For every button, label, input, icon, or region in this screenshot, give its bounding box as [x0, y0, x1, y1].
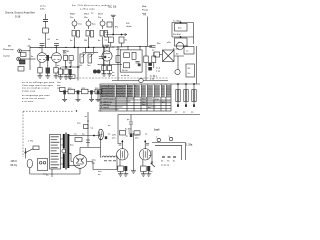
plate note texts — [28, 39, 59, 41]
component E1 — [69, 75, 75, 79]
cathode resistor R11 — [38, 62, 42, 76]
wire feed vertical — [144, 15, 148, 47]
tube labels col 2 — [84, 14, 90, 19]
terminal strip — [162, 156, 176, 158]
tiny label — [91, 13, 94, 15]
cathode resistor R16 — [102, 61, 106, 74]
tone pot VR2 — [87, 53, 94, 67]
label — [92, 160, 97, 165]
wire tap mid — [68, 153, 73, 161]
svg-text:6aa6: 6aa6 — [154, 129, 160, 132]
voltage box — [186, 64, 195, 77]
input label crystal — [3, 55, 10, 58]
triode V2 — [52, 48, 62, 63]
switch S1 — [25, 148, 33, 153]
svg-text:pa: pa — [127, 119, 130, 121]
svg-text:a aa aaaa: a aa aaaa — [22, 101, 34, 103]
svg-text:Caaa aaga aaaaf aaa agaa: Caaa aaga aaaaf aaa agaa — [22, 85, 54, 87]
wire — [86, 112, 90, 147]
svg-text:aa: aa — [191, 112, 194, 114]
B+ filter bus — [60, 91, 100, 93]
svg-text:aaa: aaa — [149, 171, 153, 173]
triode V1 — [37, 48, 47, 63]
tube labels col 1 — [70, 14, 76, 19]
meter circle M1 — [139, 78, 143, 82]
bridge rectifier BR2 — [160, 50, 185, 62]
label below box — [121, 75, 130, 77]
svg-text:Omnia Sound Amplifier: Omnia Sound Amplifier — [5, 12, 35, 15]
label aaPa — [116, 49, 122, 51]
svg-text:aa aaagaaaga gaa aaaa: aa aaagaaaga gaa aaaa — [22, 95, 50, 97]
label — [98, 171, 102, 176]
svg-text:Ca: Ca — [105, 40, 109, 42]
box left edge — [117, 115, 119, 145]
svg-text:4a: 4a — [70, 40, 73, 42]
dropper resistor R29 — [175, 84, 180, 114]
side label — [108, 125, 111, 136]
resistor R2 — [70, 31, 80, 49]
svg-text:For 29th Anniversary model: For 29th Anniversary model — [72, 4, 109, 7]
wire — [25, 153, 27, 159]
svg-text:aa: aa — [145, 134, 148, 136]
long rule / box top — [118, 114, 200, 116]
resistor R20 — [132, 52, 136, 59]
bypass capacitor C7 — [46, 61, 50, 76]
svg-text:6SC7: 6SC7 — [84, 14, 90, 16]
ground — [123, 174, 128, 176]
label — [112, 72, 115, 77]
antenna symbol — [111, 15, 116, 34]
B+ bus wire — [30, 46, 152, 48]
svg-text:2a: 2a — [188, 73, 191, 75]
ground mid — [131, 166, 136, 173]
svg-text:Pre: Pre — [98, 16, 102, 19]
svg-text:6SJ7: 6SJ7 — [98, 14, 104, 16]
capacitor can C3 — [172, 22, 194, 31]
resistor R33 — [134, 131, 140, 135]
lamp L1 — [175, 69, 180, 74]
input label mic — [3, 46, 14, 51]
input jack J1 — [18, 49, 30, 53]
selenium box U2 — [184, 47, 194, 55]
cap marks — [119, 144, 150, 146]
dropper resistor R30 — [183, 84, 188, 114]
long wire with meter — [112, 78, 168, 82]
svg-text:1a: 1a — [126, 136, 129, 138]
label — [125, 129, 132, 131]
svg-text:.02: .02 — [47, 39, 51, 41]
svg-text:Ra: Ra — [28, 39, 32, 41]
svg-text:a: a — [156, 137, 158, 139]
resistor R13 — [58, 67, 62, 77]
filter resistor R26 — [68, 88, 75, 94]
svg-text:S-16: S-16 — [15, 16, 21, 19]
svg-text:4aa: 4aa — [92, 24, 96, 26]
svg-text:1Ca: 1Ca — [78, 24, 83, 26]
svg-text:a 17a: a 17a — [28, 141, 34, 143]
wire right vertical — [196, 46, 198, 84]
capacitor blobs C20 — [93, 70, 101, 74]
table cell gaps — [115, 85, 166, 97]
wire — [93, 162, 117, 170]
transformer connect wires — [61, 139, 64, 164]
B+ wire from bridge — [80, 147, 101, 149]
svg-text:1Pa: 1Pa — [115, 27, 120, 29]
resistor R15 — [69, 56, 74, 65]
svg-text:choke: choke — [126, 26, 132, 28]
electrolytic C13 — [76, 90, 81, 101]
output labels — [99, 134, 148, 140]
ground — [38, 76, 43, 78]
rectifier oval V6 — [98, 129, 103, 140]
capacitor C17 — [129, 131, 133, 137]
label +B — [27, 46, 30, 48]
svg-text:aa: aa — [152, 50, 155, 52]
resistor R32 — [120, 131, 126, 136]
ground — [64, 77, 69, 79]
switch S2 — [151, 150, 156, 167]
title text block — [5, 12, 35, 19]
wire — [171, 23, 173, 38]
wire — [66, 47, 78, 80]
svg-text:Ra 4a: Ra 4a — [122, 70, 128, 72]
svg-text:7 aaaag a: 7 aaaag a — [101, 104, 112, 106]
capacitor C5b — [54, 44, 59, 48]
svg-text:aa 4a aa: aa 4a aa — [121, 75, 130, 77]
cathode cap C18 — [124, 166, 127, 174]
svg-text:aa va aa aaPaaga gaa aaaa: aa va aa aaPaaga gaa aaaa — [22, 82, 55, 84]
capacitor blob C7b — [69, 69, 72, 77]
svg-text:aC 1a: aC 1a — [40, 6, 46, 8]
svg-text:C+ 30af: C+ 30af — [173, 21, 181, 23]
svg-text:aa: aa — [82, 134, 85, 136]
label — [57, 65, 60, 74]
wire between — [133, 133, 135, 166]
voltage table — [100, 84, 171, 111]
ground — [118, 174, 123, 176]
arrow — [124, 33, 127, 35]
node dots on bus — [39, 46, 140, 48]
resistor R25 — [60, 88, 66, 92]
svg-text:to B+: to B+ — [40, 7, 46, 10]
volume pot VR1 — [79, 47, 98, 67]
label — [176, 54, 179, 56]
cathode resistor R34 — [118, 160, 124, 174]
receptacle box — [38, 159, 48, 171]
svg-text:aa: aa — [112, 75, 115, 77]
wire — [193, 23, 195, 45]
resistor R21 — [124, 63, 130, 68]
neon lamp N3 — [100, 19, 105, 29]
ground arrow — [105, 45, 110, 47]
label — [150, 76, 156, 81]
power transformer T1 secondary — [67, 134, 69, 168]
resistor R23 — [152, 52, 156, 68]
jack circle J3 — [156, 137, 161, 142]
capacitor C16 — [129, 115, 133, 131]
capacitor C9 — [136, 61, 141, 66]
ground — [146, 174, 151, 176]
svg-text:1M: 1M — [84, 40, 87, 42]
svg-text:28: 28 — [188, 68, 191, 70]
ground — [141, 174, 146, 176]
label 6CA4 — [154, 129, 160, 132]
wire transformer bottom — [68, 164, 80, 166]
svg-text:115 V.: 115 V. — [11, 160, 18, 163]
svg-text:aaa aa aaaa1ga a aaaa: aaa aa aaaa1ga a aaaa — [22, 88, 50, 90]
jack circle J4 — [169, 136, 173, 141]
svg-text:4gaaV6aaaa2aagaaagaagaaagaaaga: 4gaaV6aaaa2aagaaagaagaaagaaagaa — [101, 96, 137, 98]
pilot lamp P2 — [27, 159, 32, 172]
top right note text — [142, 6, 148, 15]
heater bus right — [171, 83, 200, 84]
choke L2 — [101, 137, 118, 170]
svg-text:La: La — [186, 51, 189, 53]
capacitor C5 — [40, 44, 45, 48]
svg-text:aaa: aaa — [77, 123, 81, 125]
svg-text:aa: aa — [56, 39, 59, 41]
filter stack labels — [57, 82, 61, 90]
power transformer T1 primary — [63, 134, 65, 168]
svg-text:Ton: Ton — [87, 65, 91, 67]
note paragraph left — [22, 82, 55, 103]
svg-text:aPa: aPa — [167, 42, 172, 44]
filter can label top — [173, 21, 181, 23]
svg-text:1a: 1a — [108, 134, 111, 136]
svg-text:aV6: aV6 — [112, 135, 117, 137]
svg-text:Mic: Mic — [8, 46, 11, 48]
svg-text:aa a: aa a — [153, 76, 158, 78]
label 1Pa — [115, 27, 120, 29]
svg-text:8 aaaad: 8 aaaad — [101, 107, 110, 109]
dashed enclosure left — [22, 112, 24, 158]
svg-text:R.F.: R.F. — [126, 23, 130, 25]
wire — [45, 33, 47, 48]
resistor R22 — [144, 46, 148, 80]
component K1 — [75, 138, 82, 142]
ground — [68, 77, 73, 79]
svg-text:aaa: aaa — [92, 163, 96, 165]
svg-text:aa: aa — [85, 116, 88, 118]
cathode resistor R35 — [141, 160, 147, 174]
resistor box R5 — [107, 22, 112, 27]
svg-text:aTa: aTa — [112, 138, 116, 140]
electrolytic C15 — [96, 90, 101, 101]
ground — [102, 74, 107, 76]
label 115V — [11, 160, 18, 167]
ground — [54, 76, 59, 78]
svg-text:4-6a: 4-6a — [92, 160, 97, 162]
svg-text:aaVagaAaCaapaaagapaaVaapaaaaga: aaVagaAaCaapaaagapaaVaapaaaagaw — [101, 85, 137, 88]
dropper resistor R31 — [191, 84, 196, 114]
svg-text:Ca: Ca — [91, 128, 95, 130]
svg-text:1Ca: 1Ca — [105, 32, 110, 34]
cathode resistor R12 — [54, 62, 58, 75]
svg-text:6SQ7: 6SQ7 — [70, 14, 76, 16]
capacitor C10 — [150, 45, 156, 47]
svg-text:aTa: aTa — [135, 138, 139, 140]
resistor R10 — [18, 67, 24, 72]
wire — [29, 46, 31, 70]
wire — [122, 140, 123, 149]
small note text above C1 — [40, 6, 46, 11]
svg-text:6 aa4ag aa: 6 aa4ag aa — [101, 101, 113, 103]
svg-text:Fa: Fa — [144, 15, 147, 17]
output tube V5 — [140, 149, 151, 160]
resistor R14 — [63, 54, 68, 61]
resistor R18 — [116, 56, 120, 63]
resistor R1 — [43, 28, 49, 33]
resistor R19 — [124, 53, 130, 58]
table text rows — [101, 85, 171, 110]
terminal board — [50, 135, 61, 170]
label C2 — [105, 32, 110, 34]
electrolytic C14 — [89, 90, 94, 101]
tremolo box — [120, 50, 142, 72]
coupling capacitor C6 — [45, 55, 51, 61]
wire — [117, 47, 119, 81]
neon lamp N1 — [72, 19, 83, 29]
svg-text:a-23aa aapa: a-23aa aapa — [80, 9, 96, 11]
svg-text:30+30af: 30+30af — [173, 34, 181, 36]
wire bottom — [30, 172, 80, 174]
electrolytic C12 — [62, 90, 67, 101]
svg-text:Mod.: Mod. — [142, 6, 147, 8]
svg-text:aa: aa — [175, 112, 178, 114]
capacitor C8 — [99, 45, 104, 74]
bridge rectifier BR1 — [73, 148, 93, 175]
fuse label — [28, 141, 34, 143]
label — [43, 174, 47, 176]
wire plate — [98, 64, 123, 66]
svg-text:aa: aa — [57, 65, 60, 67]
rectifier note text — [157, 42, 172, 45]
cathode cap C19 — [147, 166, 150, 174]
wire node A — [106, 33, 127, 35]
svg-text:15: 15 — [173, 161, 176, 163]
top center note text — [72, 4, 117, 11]
svg-text:30: 30 — [176, 54, 179, 56]
ground — [45, 76, 50, 78]
svg-text:60 Cy.: 60 Cy. — [11, 164, 18, 167]
svg-text:1 29a: 1 29a — [186, 144, 193, 147]
resistor R7 — [119, 37, 128, 47]
resistor R13b — [64, 67, 68, 77]
svg-text:4a: 4a — [125, 40, 128, 42]
blob — [105, 136, 107, 139]
svg-text:aa aa aa: aa aa aa — [161, 165, 170, 167]
wire — [145, 140, 146, 149]
wire output node — [62, 66, 81, 67]
resistor R8 — [21, 53, 27, 57]
ground — [58, 77, 63, 79]
svg-text:Crystal: Crystal — [3, 55, 10, 58]
resistor R17 — [107, 61, 111, 74]
svg-text:25: 25 — [161, 161, 164, 163]
svg-text:aa: aa — [108, 125, 111, 127]
svg-text:4a: 4a — [112, 72, 115, 74]
svg-text:5 aaV6a gaaa: 5 aaV6a gaaa — [101, 99, 115, 101]
resistor R6 — [105, 37, 114, 47]
resistor R24 — [152, 50, 160, 58]
tube labels col 3 — [98, 14, 104, 19]
capacitor C1 chain — [43, 14, 48, 28]
svg-text:aaa: aaa — [98, 171, 102, 173]
filter resistor R28 — [95, 88, 102, 94]
svg-text:aa: aa — [91, 13, 94, 15]
resistor R36 — [84, 125, 89, 129]
svg-text:aa: aa — [149, 155, 152, 157]
svg-text:a 30: a 30 — [150, 79, 155, 81]
node — [93, 135, 94, 136]
svg-text:aaa: aaa — [57, 85, 61, 87]
svg-text:Vol: Vol — [79, 65, 82, 67]
label row — [63, 51, 69, 53]
svg-text:4a: 4a — [57, 72, 60, 74]
resistor R4 — [98, 31, 108, 48]
svg-text:36a: 36a — [157, 43, 161, 45]
filter resistor R27 — [82, 88, 89, 94]
resistor R3 — [84, 31, 94, 48]
svg-text:aa: aa — [46, 175, 49, 177]
svg-text:aa: aa — [98, 174, 101, 176]
dual triode V3 — [102, 47, 112, 61]
label left of V1 — [31, 56, 34, 58]
input jack J2 — [17, 57, 36, 61]
label bottom — [173, 49, 179, 51]
label inside box — [122, 70, 128, 72]
wire — [127, 47, 129, 50]
labels on x88 chain — [77, 111, 102, 130]
pilot circle P1 — [176, 42, 188, 49]
switch labels — [149, 155, 153, 173]
secondary top wire — [68, 135, 101, 137]
svg-text:Phono amp: Phono amp — [3, 49, 14, 51]
svg-text:aa aa aaa aa aaaaa: aa aa aaa aa aaaaa — [22, 98, 46, 100]
svg-text:47a: 47a — [63, 54, 67, 56]
thin signal line — [76, 77, 168, 79]
note text — [153, 68, 161, 78]
output tube V4 — [117, 149, 128, 160]
capacitor blob C11 — [148, 63, 152, 71]
svg-text:75: 75 — [167, 161, 170, 163]
cap labels — [70, 134, 85, 147]
svg-text:4a: 4a — [31, 56, 34, 58]
lamp tap circle — [62, 149, 66, 153]
svg-text:4a: 4a — [98, 40, 101, 42]
capacitor can C4 — [172, 36, 194, 46]
svg-text:47a: 47a — [178, 28, 182, 30]
svg-text:aa: aa — [183, 112, 186, 114]
transformer core — [65, 133, 68, 170]
svg-text:aaaga aaay: aaaga aaay — [22, 90, 36, 92]
label — [127, 119, 130, 121]
dashed enclosure top — [23, 110, 74, 112]
label choke — [126, 23, 132, 28]
svg-text:aa 4: aa 4 — [156, 68, 161, 70]
fuse F1 — [33, 146, 39, 150]
svg-text:4a 30a: 4a 30a — [125, 129, 132, 131]
svg-text:Pre: Pre — [70, 16, 74, 19]
svg-text:SC 16: SC 16 — [108, 5, 117, 9]
svg-text:1 aa: 1 aa — [156, 71, 161, 73]
svg-text:4aa: 4aa — [70, 145, 74, 147]
svg-text:Pream: Pream — [142, 9, 148, 12]
wire below board — [51, 169, 53, 177]
neon lamp N2 — [86, 19, 96, 29]
label — [46, 175, 49, 177]
svg-text:Ca: Ca — [74, 134, 78, 136]
